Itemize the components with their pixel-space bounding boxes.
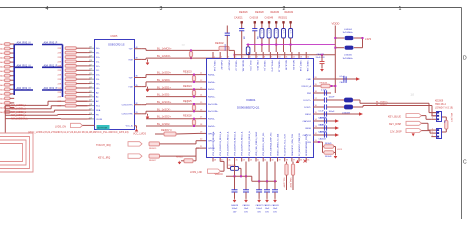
resistor top row 5 bbox=[275, 21, 277, 23]
connector pin 3 bbox=[431, 118, 436, 120]
svg-text:16V: 16V bbox=[265, 211, 269, 213]
svg-text:VDDL_12A: VDDL_12A bbox=[213, 61, 216, 72]
svg-text:SDA_DISP: SDA_DISP bbox=[289, 178, 292, 189]
wire A04_RX1_P bbox=[42, 66, 63, 68]
svg-text:MCLK+/IN: MCLK+/IN bbox=[285, 61, 287, 71]
svg-text:RE3030: RE3030 bbox=[271, 11, 280, 14]
svg-text:RE3046: RE3046 bbox=[325, 156, 332, 158]
svg-text:22R: 22R bbox=[58, 97, 62, 99]
svg-text:1.0: 1.0 bbox=[182, 45, 186, 47]
U3005 pin 11 wire bbox=[88, 91, 91, 93]
capacitor CA3043 bbox=[323, 125, 325, 130]
svg-text:CLKIN: CLKIN bbox=[96, 119, 103, 121]
svg-text:8: 8 bbox=[264, 57, 265, 59]
svg-text:1k/100MHz: 1k/100MHz bbox=[343, 58, 353, 60]
svg-text:5V_EN/GPIO_PWR_EN: 5V_EN/GPIO_PWR_EN bbox=[299, 133, 301, 156]
svg-text:12V_DISP: 12V_DISP bbox=[390, 130, 402, 133]
capacitor CA3044 bbox=[323, 132, 325, 137]
svg-text:VSS_D4/GPIO9_REG4_A: VSS_D4/GPIO9_REG4_A bbox=[241, 131, 244, 156]
wire A04_RX0_P bbox=[42, 44, 63, 46]
U3005 pin 9 wire bbox=[88, 83, 91, 85]
svg-text:41: 41 bbox=[264, 160, 266, 162]
wire bus vertical right bbox=[62, 45, 64, 98]
wire BL_1xSD1+ bbox=[146, 88, 199, 90]
svg-text:36: 36 bbox=[300, 160, 302, 162]
svg-text:RE3021: RE3021 bbox=[176, 157, 184, 159]
svg-text:100nF: 100nF bbox=[329, 96, 336, 98]
svg-text:DS90UB927Q-Q1: DS90UB927Q-Q1 bbox=[237, 106, 260, 110]
VI3001 bottom pin VSS_DD/SCL_DISP_RG bbox=[262, 158, 264, 162]
svg-text:16V: 16V bbox=[257, 211, 261, 213]
svg-text:Y1M: Y1M bbox=[128, 87, 133, 89]
svg-text:MODE_SEL: MODE_SEL bbox=[242, 61, 244, 73]
svg-text:0.1uF: 0.1uF bbox=[340, 76, 346, 78]
svg-text:VCC_LVDS: VCC_LVDS bbox=[133, 133, 146, 136]
svg-text:IDX2_CFG: IDX2_CFG bbox=[249, 61, 251, 72]
capacitor CA3033 bbox=[274, 180, 276, 182]
svg-text:119: 119 bbox=[89, 100, 92, 102]
svg-text:BL_1xMCK-: BL_1xMCK- bbox=[157, 54, 171, 58]
U3005 pin 1 wire bbox=[88, 47, 91, 49]
VI3001 top pin RxIN3+/LF bbox=[226, 52, 228, 59]
VI3001 left pin GPIO2 bbox=[199, 140, 206, 142]
capacitor CA3038 bbox=[343, 76, 345, 81]
wire A04_LVDS1_L bbox=[5, 108, 51, 110]
wire KEY_DISP bbox=[422, 122, 429, 124]
VI3001 bottom pin VDD_CML_F/REG_CMLF bbox=[255, 158, 257, 162]
svg-text:(JOWD-7.A.S 19): (JOWD-7.A.S 19) bbox=[435, 106, 453, 109]
VI3001 top pin RxIN3-/LF bbox=[219, 52, 221, 59]
wire BL_1xMCK- bbox=[142, 58, 146, 60]
svg-text:10uF: 10uF bbox=[265, 208, 270, 210]
no-connect arrow bbox=[335, 133, 339, 137]
svg-text:5: 5 bbox=[432, 132, 433, 134]
wire BL_1xSD0+ bbox=[142, 77, 146, 79]
svg-text:36: 36 bbox=[136, 76, 138, 78]
svg-text:RE3002: RE3002 bbox=[215, 42, 224, 45]
svg-text:HSD 4P+2: HSD 4P+2 bbox=[435, 104, 447, 106]
wire PB2 net bbox=[320, 92, 331, 94]
svg-text:100nF: 100nF bbox=[256, 208, 262, 210]
wire CA3018 column bbox=[226, 26, 228, 34]
svg-text:VDDIO_2/REG_IO_18A: VDDIO_2/REG_IO_18A bbox=[277, 133, 280, 156]
IC U3005 body bbox=[95, 40, 135, 130]
svg-text:CA3015: CA3015 bbox=[263, 204, 271, 207]
svg-text:35: 35 bbox=[136, 85, 138, 87]
svg-text:42: 42 bbox=[257, 160, 259, 162]
resistor RE3045 bbox=[324, 145, 334, 149]
svg-text:16V: 16V bbox=[244, 211, 248, 213]
svg-text:40: 40 bbox=[136, 47, 138, 49]
svg-text:22R: 22R bbox=[58, 88, 62, 90]
VI3001 right pin VDD12_A bbox=[313, 85, 320, 87]
wire A04_RX2_N bbox=[14, 89, 33, 91]
VI3001 top pin VDDR_12A bbox=[305, 52, 307, 59]
U3005 pin 6 wire bbox=[88, 69, 91, 71]
wire pin drop CA3016 bbox=[245, 162, 247, 177]
svg-text:CA3018: CA3018 bbox=[224, 44, 227, 51]
svg-text:RE3028: RE3028 bbox=[183, 115, 192, 118]
svg-text:124: 124 bbox=[89, 78, 92, 80]
svg-text:CAP3046: CAP3046 bbox=[319, 130, 328, 133]
svg-text:40: 40 bbox=[271, 160, 273, 162]
svg-text:KE2009: KE2009 bbox=[435, 101, 444, 103]
svg-text:RxIN1+: RxIN1+ bbox=[208, 97, 216, 99]
svg-text:RES1: RES1 bbox=[305, 114, 311, 116]
svg-text:RE3017: RE3017 bbox=[149, 160, 157, 162]
connector pin 2 bbox=[431, 115, 436, 117]
svg-text:22R: 22R bbox=[58, 61, 62, 63]
wire 12V_DISP bbox=[422, 130, 431, 132]
wire LVDS bus vertical bbox=[4, 105, 6, 133]
svg-text:L3V3: L3V3 bbox=[337, 149, 343, 151]
svg-text:4: 4 bbox=[235, 57, 236, 59]
svg-text:10uF: 10uF bbox=[273, 208, 278, 210]
resistor RE3021 pulldown bbox=[196, 147, 199, 149]
wire BL_1xMCK+ bbox=[142, 48, 146, 50]
svg-text:BL_1xMCK+: BL_1xMCK+ bbox=[157, 46, 172, 50]
svg-text:VDD_CML_F/REG_CMLF: VDD_CML_F/REG_CMLF bbox=[256, 131, 258, 156]
VI3001 right pin DOUT+ bbox=[313, 99, 320, 101]
svg-text:VCC_A: VCC_A bbox=[126, 125, 134, 128]
U3005 pin 13 wire bbox=[88, 100, 91, 102]
svg-text:3: 3 bbox=[160, 6, 163, 12]
svg-text:RE3028: RE3028 bbox=[255, 11, 264, 14]
cyan highlight BOTTOM tag bbox=[97, 125, 110, 130]
VI3001 top pin VDDPLL_12 bbox=[277, 52, 279, 59]
svg-text:BL_1xSCK+: BL_1xSCK+ bbox=[157, 100, 172, 104]
svg-text:CAP3045: CAP3045 bbox=[319, 116, 328, 119]
VI3001 bottom pin 5V_EN/GPIO_PWR_EN bbox=[298, 158, 300, 162]
VI3001 left pin RxCLKIN+ bbox=[199, 110, 206, 112]
svg-text:L3V3: L3V3 bbox=[365, 37, 372, 41]
svg-text:(VCC_LVDS:2,8,21,27/GND:6,11,1: (VCC_LVDS:2,8,21,27/GND:6,11,17,24,40,AC… bbox=[28, 130, 129, 134]
svg-text:Y0M: Y0M bbox=[128, 59, 133, 61]
resistor RE2009 (connector) bbox=[442, 116, 446, 118]
VI3001 left pin RxIN2- bbox=[199, 118, 206, 120]
svg-text:VDDPLL_12: VDDPLL_12 bbox=[278, 61, 280, 73]
wire BL_1xSD2- bbox=[146, 125, 199, 127]
VI3001 top pin VDDL_12A bbox=[212, 52, 214, 59]
svg-text:4: 4 bbox=[432, 129, 433, 131]
svg-text:121: 121 bbox=[89, 91, 92, 93]
svg-text:BL_1xSD1+: BL_1xSD1+ bbox=[157, 85, 171, 89]
svg-text:129: 129 bbox=[89, 55, 92, 57]
VI3001 left pin RxIN1+ bbox=[199, 96, 206, 98]
svg-text:2: 2 bbox=[221, 57, 222, 59]
common mode choke LG3009 bbox=[344, 98, 353, 103]
svg-text:4.7k: 4.7k bbox=[267, 30, 269, 33]
svg-text:VDDR_12A: VDDR_12A bbox=[306, 61, 309, 72]
resistor RE3026 series bbox=[226, 162, 228, 169]
svg-text:CMF: CMF bbox=[306, 79, 311, 81]
U3005 pin 7 wire bbox=[88, 74, 91, 76]
capacitor top row 1 bbox=[241, 21, 243, 23]
svg-text:RxIN0-: RxIN0- bbox=[208, 75, 215, 77]
svg-text:0.1uF: 0.1uF bbox=[321, 89, 327, 91]
wire pin drop CA3027 bbox=[258, 162, 260, 182]
wire VDD12_A net bbox=[320, 85, 335, 87]
no-connect arrow bbox=[359, 112, 363, 116]
wire IDX net bbox=[320, 141, 323, 143]
svg-text:Y0P: Y0P bbox=[129, 49, 134, 51]
wire KEY1_IRQ bbox=[160, 155, 197, 157]
VI3001 right pin RE30 bbox=[313, 127, 320, 129]
wire BL_1xSCK- bbox=[142, 113, 146, 115]
svg-text:RES0_CFG: RES0_CFG bbox=[270, 61, 272, 72]
wire VDDIO rail step bbox=[251, 176, 253, 181]
wire A04_LVDS0_L bbox=[5, 104, 48, 106]
svg-text:131: 131 bbox=[89, 47, 92, 49]
wire MCLK+ to pin bbox=[229, 49, 234, 51]
no-connect arrow bbox=[335, 126, 339, 130]
wire A04_RX1_N bbox=[14, 66, 33, 68]
wire loop 2 (bottom left) bbox=[0, 137, 30, 169]
svg-text:PD: PD bbox=[96, 114, 99, 116]
svg-text:PDB_REG: PDB_REG bbox=[256, 61, 258, 71]
no-connect X bbox=[304, 160, 307, 163]
resistor top row 3 bbox=[261, 21, 263, 23]
svg-text:22R: 22R bbox=[58, 79, 62, 81]
svg-text:BL_1xSD0+: BL_1xSD0+ bbox=[157, 71, 171, 75]
svg-text:1: 1 bbox=[214, 57, 215, 59]
svg-text:DOUT+: DOUT+ bbox=[304, 100, 312, 102]
svg-text:VSS_D1/GPIO6_REG1_A: VSS_D1/GPIO6_REG1_A bbox=[219, 131, 222, 156]
svg-text:D2-: D2- bbox=[96, 70, 100, 72]
svg-text:5: 5 bbox=[242, 57, 243, 59]
svg-text:4: 4 bbox=[46, 6, 49, 12]
wire BL_1xSCK+ bbox=[142, 104, 146, 106]
ground symbol near U3005 CLKOUT bbox=[147, 114, 149, 116]
wire DOUT+ coupling bbox=[320, 99, 324, 101]
svg-text:22R: 22R bbox=[58, 48, 62, 50]
svg-text:A04_LVDS2_L: A04_LVDS2_L bbox=[11, 111, 27, 114]
svg-text:22R: 22R bbox=[58, 92, 62, 94]
svg-text:122: 122 bbox=[89, 86, 92, 88]
no-connect arrow bbox=[335, 119, 339, 123]
svg-text:LVDS_ON: LVDS_ON bbox=[55, 125, 66, 128]
svg-text:4.7k: 4.7k bbox=[260, 30, 262, 33]
svg-text:VSS_DE/SDA_DISP_RG: VSS_DE/SDA_DISP_RG bbox=[269, 132, 272, 156]
svg-text:10k: 10k bbox=[443, 120, 445, 123]
magenta rail bbox=[246, 44, 335, 46]
resistor top row 4 bbox=[268, 21, 270, 23]
svg-text:0.1uF: 0.1uF bbox=[319, 110, 325, 112]
svg-text:9: 9 bbox=[271, 57, 272, 59]
svg-text:3: 3 bbox=[228, 57, 229, 59]
sheet border top line bbox=[0, 7, 462, 9]
VI3001 bottom pin SDA2/GPIO_SDA_TCH bbox=[291, 158, 293, 162]
resistor RE3048 pullup bbox=[292, 162, 294, 165]
svg-text:RE3021: RE3021 bbox=[279, 17, 288, 20]
svg-text:CLKOUTPb: CLKOUTPb bbox=[122, 114, 134, 116]
svg-text:Y1P: Y1P bbox=[129, 77, 134, 79]
svg-text:100nF: 100nF bbox=[232, 208, 238, 210]
svg-text:LG3005: LG3005 bbox=[344, 55, 353, 57]
wire right net row y114 bbox=[320, 113, 359, 115]
svg-text:1.0: 1.0 bbox=[411, 94, 415, 97]
VI3001 right pin CAPH12 bbox=[313, 120, 320, 122]
VI3001 right pin RES1 bbox=[313, 113, 320, 115]
svg-text:SCL_DISP: SCL_DISP bbox=[283, 178, 285, 189]
svg-text:VSS_DD/SCL_DISP_RG: VSS_DD/SCL_DISP_RG bbox=[263, 132, 265, 156]
svg-text:35: 35 bbox=[307, 160, 309, 162]
svg-text:BOTTOM: BOTTOM bbox=[98, 128, 107, 130]
VI3001 right pin PB2 bbox=[313, 92, 320, 94]
svg-text:DOUT-: DOUT- bbox=[304, 107, 311, 109]
svg-text:CA3038: CA3038 bbox=[340, 81, 348, 84]
svg-text:VDD12_A: VDD12_A bbox=[301, 85, 311, 88]
svg-text:11: 11 bbox=[286, 57, 288, 59]
svg-text:CA3044: CA3044 bbox=[319, 138, 327, 141]
wire loop 4 (bottom left) bbox=[0, 144, 23, 162]
wire right net row y121 bbox=[320, 120, 335, 122]
capacitor CA3039 bbox=[323, 111, 325, 116]
wire idx join bbox=[334, 146, 336, 148]
wire L3V3 bbox=[362, 38, 364, 48]
resistor RE3019 bbox=[149, 142, 160, 146]
svg-text:22R: 22R bbox=[58, 57, 62, 59]
wire BL_1xSD1- bbox=[146, 96, 199, 98]
svg-text:VSS_D2/GPIO7_REG2_A: VSS_D2/GPIO7_REG2_A bbox=[226, 131, 229, 156]
svg-text:RE3032: RE3032 bbox=[285, 11, 294, 14]
svg-text:38: 38 bbox=[286, 160, 288, 162]
wire VDDIO rail lower bbox=[252, 180, 277, 182]
wire bus vertical left bbox=[13, 45, 15, 96]
svg-text:22R: 22R bbox=[58, 52, 62, 54]
resistor RE3021 (mck termination) bbox=[189, 52, 192, 57]
svg-text:RE3019: RE3019 bbox=[149, 148, 157, 150]
VI3001 left pin GPIO1 bbox=[199, 147, 206, 149]
wire BL_VIDEO- bbox=[353, 106, 363, 108]
svg-text:RxIN3-/LF: RxIN3-/LF bbox=[220, 61, 222, 71]
wire BL_1xSD2+ bbox=[146, 118, 199, 120]
VI3001 left pin RxIN2+ bbox=[199, 125, 206, 127]
VI3001 left pin RxIN0- bbox=[199, 74, 206, 76]
svg-text:RxIN1-: RxIN1- bbox=[208, 89, 215, 91]
power symbol 5V bbox=[297, 162, 299, 164]
wire BL_1xSD0- bbox=[142, 86, 146, 88]
svg-text:6: 6 bbox=[432, 135, 433, 137]
connector pin 5 bbox=[431, 132, 436, 134]
capacitor CA3028 bbox=[234, 175, 236, 177]
svg-text:LG3004: LG3004 bbox=[344, 29, 353, 31]
VI3001 bottom pin SCL2/GPIO_SCL_TCH bbox=[284, 158, 286, 162]
U3005 pin 5 wire bbox=[88, 65, 91, 67]
svg-text:D0-: D0- bbox=[96, 53, 100, 55]
wire A04_LVDSCK_L bbox=[5, 118, 61, 120]
capacitor CA3037 bbox=[323, 90, 325, 95]
svg-text:VDDD: VDDD bbox=[332, 22, 340, 26]
connector KE2009 body upper bbox=[437, 112, 442, 122]
U3005 pin 14 wire bbox=[88, 105, 91, 107]
U3005 pin 15 wire bbox=[88, 109, 91, 111]
svg-text:CA3049: CA3049 bbox=[265, 17, 274, 20]
U3005 pin 4 wire bbox=[88, 60, 91, 62]
wire BL_VIDEO+ bbox=[353, 99, 360, 101]
power symbol VCC_LVDS bbox=[136, 126, 138, 129]
svg-text:130: 130 bbox=[89, 51, 92, 53]
svg-text:TOUCH_IRQ: TOUCH_IRQ bbox=[96, 144, 111, 147]
svg-text:KEY_DISP: KEY_DISP bbox=[389, 123, 402, 126]
wire loop 1 (bottom left) bbox=[0, 133, 33, 172]
svg-text:VI3001: VI3001 bbox=[246, 98, 256, 102]
svg-text:VDDIO: VDDIO bbox=[215, 172, 223, 176]
connector KE2009 body lower bbox=[437, 129, 442, 139]
svg-text:VSS_D3/GPIO8_REG3_A: VSS_D3/GPIO8_REG3_A bbox=[234, 131, 237, 156]
svg-text:22R: 22R bbox=[58, 101, 62, 103]
svg-text:45: 45 bbox=[236, 160, 238, 162]
resistor RE3046 bbox=[324, 151, 334, 155]
svg-text:VSS_DC/GPIO5_REG5_A: VSS_DC/GPIO5_REG5_A bbox=[248, 131, 251, 156]
VI3001 left pin RxIN0+ bbox=[199, 81, 206, 83]
U3005 pin 3 wire bbox=[88, 56, 91, 58]
VI3001 left pin GPIO0 bbox=[199, 132, 206, 134]
svg-text:U3005: U3005 bbox=[110, 35, 118, 38]
svg-text:BL_1xSD2-: BL_1xSD2- bbox=[157, 122, 170, 126]
svg-text:C: C bbox=[463, 160, 467, 166]
capacitor CA3036 bbox=[323, 104, 325, 109]
svg-text:14: 14 bbox=[307, 57, 309, 59]
VI3001 right pin CMF bbox=[313, 78, 320, 80]
power symbol 12V bbox=[412, 133, 415, 136]
wire right net row y128 bbox=[320, 127, 335, 129]
svg-text:CA3016: CA3016 bbox=[242, 204, 250, 207]
svg-text:CA3021: CA3021 bbox=[234, 17, 243, 20]
ground symbol RE3021 bbox=[178, 161, 181, 164]
VI3001 bottom pin VSS_DC/GPIO5_REG5_A bbox=[248, 158, 250, 162]
svg-text:MCLK-/IN: MCLK-/IN bbox=[292, 61, 294, 71]
wire KEY_BLUE bbox=[422, 115, 427, 117]
VI3001 top pin VDDL2_12 bbox=[234, 52, 236, 59]
wire pin drop CA3015 bbox=[266, 162, 268, 182]
U3005 pin 12 wire bbox=[88, 96, 91, 98]
svg-text:104: 104 bbox=[243, 36, 245, 39]
svg-text:RxCLKIN+: RxCLKIN+ bbox=[208, 111, 219, 113]
wire right net row y135 bbox=[320, 134, 335, 136]
VI3001 top pin IDX2_CFG bbox=[248, 52, 250, 59]
wire DOUT- coupling bbox=[320, 106, 324, 108]
svg-text:43: 43 bbox=[250, 160, 252, 162]
wire pin drop CA3033 bbox=[274, 162, 276, 182]
resistor RE3031 (below magenta rail) bbox=[246, 47, 250, 55]
U3005 pin 8 wire bbox=[88, 78, 91, 80]
svg-text:A04_LVDS1_L: A04_LVDS1_L bbox=[11, 108, 27, 111]
svg-text:BL_1xSD1-: BL_1xSD1- bbox=[157, 93, 170, 97]
VI3001 right pin IDX bbox=[313, 141, 320, 143]
VI3001 left pin RxCLKIN- bbox=[199, 103, 206, 105]
VI3001 right pin CAPP12 bbox=[313, 134, 320, 136]
wire CMF net bbox=[320, 78, 356, 80]
svg-text:VDDT_12A: VDDT_12A bbox=[299, 61, 302, 72]
ground symbol near U3005 Y1M bbox=[147, 87, 149, 89]
svg-text:KEY_BLUE: KEY_BLUE bbox=[388, 115, 401, 118]
wire TOUCH_IRQ bbox=[160, 143, 197, 145]
VI3001 bottom pin VSS_DE/SDA_DISP_RG bbox=[269, 158, 271, 162]
connector pin 1 bbox=[431, 112, 436, 114]
svg-text:33uF 6.3V: 33uF 6.3V bbox=[316, 57, 326, 59]
VI3001 top pin VDDT_12A bbox=[298, 52, 300, 59]
svg-text:104: 104 bbox=[256, 36, 258, 39]
svg-text:16V: 16V bbox=[273, 211, 277, 213]
svg-text:CAPH12: CAPH12 bbox=[302, 120, 311, 123]
svg-text:1k/100MHz: 1k/100MHz bbox=[343, 32, 353, 34]
capacitor CA3035 bbox=[323, 97, 325, 102]
wire A04_RX2_P bbox=[42, 89, 63, 91]
capacitor CA3015 bbox=[266, 180, 268, 182]
svg-text:32: 32 bbox=[136, 103, 138, 105]
svg-text:123: 123 bbox=[89, 82, 92, 84]
